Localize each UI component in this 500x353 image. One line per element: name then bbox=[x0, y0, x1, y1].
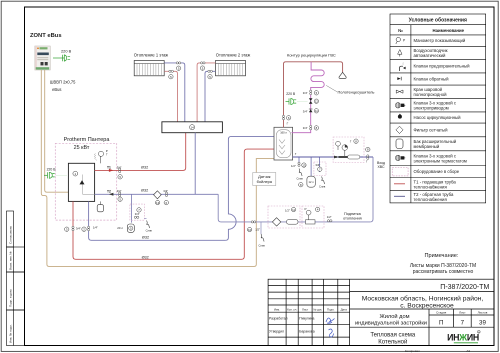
valve in drain assembly bbox=[134, 216, 136, 218]
gauge in pump box bbox=[336, 141, 341, 146]
valve on red riser bbox=[72, 226, 74, 228]
svg-text:Подп.: Подп. bbox=[327, 308, 335, 312]
safety group P gauge bbox=[94, 151, 103, 163]
legend symbol Т2 труба bbox=[394, 195, 405, 197]
svg-text:рассматривать совместно: рассматривать совместно bbox=[413, 269, 474, 275]
svg-text:Отопление 1 этаж: Отопление 1 этаж bbox=[134, 53, 169, 58]
svg-text:электроприводом: электроприводом bbox=[414, 106, 449, 111]
radiator 2 bbox=[216, 61, 246, 76]
svg-text:П: П bbox=[439, 320, 443, 327]
svg-text:220 В: 220 В bbox=[47, 168, 57, 172]
boiler unit U1 bbox=[68, 163, 94, 201]
P gauge on make-up bbox=[306, 210, 311, 219]
svg-text:7: 7 bbox=[461, 320, 465, 327]
svg-text:11: 11 bbox=[315, 109, 318, 113]
220V supply recirc pump bbox=[286, 92, 308, 105]
svg-text:Лист: Лист bbox=[459, 311, 466, 315]
svg-text:1/2": 1/2" bbox=[327, 215, 332, 219]
circle 15 bbox=[176, 66, 180, 70]
circle 16 bbox=[200, 66, 204, 70]
make-up pump box bbox=[302, 206, 324, 228]
svg-text:1/2": 1/2" bbox=[291, 164, 296, 168]
recirc pump assembly box bbox=[333, 137, 364, 163]
svg-text:№ док.: № док. bbox=[313, 308, 322, 312]
svg-text:№: № bbox=[398, 28, 403, 33]
valve on blue riser bbox=[88, 226, 90, 228]
left margin attribute boxes bbox=[7, 211, 25, 346]
cold water riser bbox=[370, 157, 373, 222]
stage columns bbox=[428, 309, 430, 346]
expansion tank branch 12 l bbox=[310, 157, 312, 176]
svg-text:Дата: Дата bbox=[341, 308, 348, 312]
DHW recirculation loop top bbox=[284, 62, 343, 128]
svg-text:Полотенцесушитель: Полотенцесушитель bbox=[338, 90, 375, 95]
circle 11 bbox=[291, 207, 295, 211]
svg-text:Р: Р bbox=[305, 207, 307, 211]
svg-text:3/4": 3/4" bbox=[303, 109, 308, 113]
drain branch from T2 bbox=[131, 194, 133, 222]
svg-text:Слив: Слив bbox=[297, 177, 304, 181]
legend symbol кран шаровой bbox=[396, 90, 403, 93]
drain branch on make-up bbox=[260, 222, 262, 234]
svg-text:Наименование: Наименование bbox=[433, 28, 465, 33]
3-way valve with actuator bbox=[309, 98, 313, 101]
wire sensor box to tank bbox=[256, 159, 276, 173]
signatures (blue) bbox=[326, 318, 335, 323]
svg-text:Разработал: Разработал bbox=[269, 317, 287, 321]
circle 14 bbox=[190, 125, 195, 130]
svg-text:Подп. и дата: Подп. и дата bbox=[9, 289, 13, 307]
svg-text:ХВС: ХВС bbox=[377, 165, 385, 169]
valve on make-up bbox=[251, 221, 253, 223]
svg-text:13: 13 bbox=[156, 201, 160, 205]
svg-text:Клапан предохранительный: Клапан предохранительный bbox=[414, 64, 471, 69]
svg-text:Московская область, Ногинский: Московская область, Ногинский район, bbox=[362, 294, 484, 302]
reducer on make-up bbox=[306, 220, 316, 224]
circle 5 serpentine bbox=[314, 91, 318, 95]
svg-text:Согласовано: Согласовано bbox=[9, 226, 13, 244]
svg-text:Слив: Слив bbox=[146, 229, 153, 233]
wire eBus to boiler bbox=[45, 70, 69, 192]
svg-text:Взам. инв. №: Взам. инв. № bbox=[9, 251, 13, 270]
svg-text:13: 13 bbox=[302, 163, 306, 167]
hydraulic separator manifold bbox=[162, 122, 223, 133]
pump symbol bbox=[342, 145, 348, 151]
DHW outlet pipe from tank bbox=[293, 156, 373, 158]
radiator 1 bbox=[134, 61, 164, 76]
radiator 1 supply pipe (red) bbox=[164, 71, 177, 122]
circle 11 serpentine bbox=[314, 109, 318, 113]
svg-text:Т1: Т1 bbox=[107, 165, 111, 169]
svg-text:39: 39 bbox=[479, 320, 486, 327]
svg-text:с. Воскресенское: с. Воскресенское bbox=[400, 302, 454, 309]
circle 5 on T2 valve bbox=[118, 197, 122, 201]
right part horizontals bbox=[350, 290, 494, 292]
blue riser with crossing bridge bbox=[226, 136, 274, 240]
svg-text:Ø32: Ø32 bbox=[141, 189, 148, 193]
drain branch on DHW outlet bbox=[298, 157, 300, 166]
flex connector bbox=[287, 220, 299, 225]
fittings on DHW line in box bbox=[335, 156, 337, 158]
svg-text:Ø32: Ø32 bbox=[142, 235, 149, 239]
svg-text:3/4": 3/4" bbox=[117, 165, 122, 169]
legend symbol клапан 3-х ходовой с электронным термостатом bbox=[395, 155, 405, 160]
valve on rad1 return bbox=[176, 62, 178, 64]
svg-text:3/4": 3/4" bbox=[76, 226, 81, 230]
filter F1 on T2 bbox=[154, 191, 162, 199]
svg-text:220 В: 220 В bbox=[61, 49, 72, 54]
svg-text:Слив: Слив bbox=[319, 185, 326, 189]
air separator triangle bbox=[339, 72, 346, 78]
boiler assembly dashed boundary bbox=[55, 143, 116, 220]
wire to boiler sensor bbox=[41, 70, 256, 266]
valve after pump box bbox=[367, 155, 369, 157]
svg-text:1/4": 1/4" bbox=[93, 226, 98, 230]
svg-text:Подпитка: Подпитка bbox=[344, 212, 362, 216]
svg-text:Ø32: Ø32 bbox=[142, 255, 149, 259]
svg-text:Отопление 2 этаж: Отопление 2 этаж bbox=[216, 53, 251, 58]
radiator 2 return pipe (dark) bbox=[205, 71, 216, 122]
dashed box drain assembly bbox=[130, 204, 144, 220]
make-up filter box bbox=[268, 206, 300, 228]
circle 8 bbox=[299, 183, 303, 187]
svg-text:12: 12 bbox=[315, 99, 319, 103]
left column verticals bbox=[285, 279, 287, 345]
legend symbol клапан обратный bbox=[397, 77, 400, 80]
svg-text:Пикулина: Пикулина bbox=[299, 317, 314, 321]
svg-text:14: 14 bbox=[190, 126, 194, 130]
svg-text:3/4": 3/4" bbox=[117, 189, 122, 193]
valve on rad2 return bbox=[208, 70, 210, 72]
svg-text:3/4": 3/4" bbox=[303, 126, 308, 130]
svg-text:электронным термостатом: электронным термостатом bbox=[414, 158, 467, 163]
circle 7 DHW bbox=[318, 167, 322, 171]
svg-text:бойлера: бойлера bbox=[257, 179, 273, 184]
legend symbol оборудование в сборе bbox=[392, 167, 408, 176]
circle 6 bbox=[164, 200, 168, 204]
svg-text:Кол. уч.: Кол. уч. bbox=[287, 308, 297, 312]
svg-text:10: 10 bbox=[248, 228, 252, 232]
circle 3 bbox=[65, 227, 69, 231]
svg-text:А3: А3 bbox=[466, 349, 470, 353]
svg-text:теплоснабжения: теплоснабжения bbox=[414, 184, 448, 189]
legend symbol клапан предохранительный bbox=[400, 66, 403, 71]
svg-text:20 л: 20 л bbox=[117, 226, 123, 230]
safety valve box on DHW bbox=[314, 162, 326, 176]
svg-text:Котельной: Котельной bbox=[378, 339, 407, 346]
svg-text:25 кВт: 25 кВт bbox=[74, 145, 90, 151]
circle 8 serpentine bbox=[314, 126, 318, 130]
svg-text:3/4": 3/4" bbox=[135, 212, 140, 216]
valve on T2 bbox=[119, 192, 121, 194]
drain symbol near boiler bbox=[147, 221, 150, 229]
logo ИНЖИН bbox=[447, 330, 480, 342]
circle 5 on T1 valve bbox=[118, 175, 122, 179]
svg-text:Оборудование в сборе: Оборудование в сборе bbox=[414, 169, 460, 174]
DHW loading return pipe (blue) bbox=[89, 201, 226, 240]
svg-text:Слив: Слив bbox=[259, 244, 266, 248]
circle 15b bbox=[169, 75, 173, 79]
ZONT controller device bbox=[35, 46, 50, 70]
indirect water heater tank 160 l bbox=[274, 127, 293, 160]
svg-text:220 В: 220 В bbox=[286, 92, 296, 96]
condensate vessel under boiler bbox=[99, 201, 101, 204]
legend table Условные обозначения bbox=[390, 14, 486, 203]
legend symbol Т1 труба bbox=[394, 183, 405, 185]
svg-text:1/2": 1/2" bbox=[255, 228, 260, 232]
filter on make-up bbox=[272, 218, 280, 226]
circle 7 bbox=[137, 208, 141, 212]
pipe T1 supply boiler to manifold bbox=[95, 133, 186, 171]
circle 4 bbox=[315, 207, 319, 211]
svg-text:Стадия: Стадия bbox=[436, 311, 447, 315]
circle 2 bbox=[82, 227, 86, 231]
towel warmer pointer bbox=[326, 85, 337, 91]
svg-text:3/4": 3/4" bbox=[163, 189, 168, 193]
manifold return drop bbox=[194, 133, 196, 195]
svg-text:индивидуальной застройки: индивидуальной застройки bbox=[355, 320, 427, 327]
svg-text:Баранова: Баранова bbox=[299, 330, 314, 334]
valve on rad1 supply bbox=[169, 70, 171, 72]
legend symbol насос циркуляционный bbox=[398, 115, 402, 119]
svg-text:Р: Р bbox=[106, 149, 108, 153]
circle 12 bbox=[314, 99, 318, 103]
svg-text:Клапан обратный: Клапан обратный bbox=[414, 76, 450, 81]
burner symbol bbox=[80, 180, 85, 184]
svg-text:Protherm Пантера: Protherm Пантера bbox=[64, 137, 111, 143]
radiator 1 return pipe (dark) bbox=[164, 63, 185, 122]
radiator 2 supply pipe (red) bbox=[197, 63, 215, 122]
circle 8 after box bbox=[366, 147, 370, 151]
svg-text:Утвердил: Утвердил bbox=[269, 330, 284, 334]
svg-text:ИНЖИН: ИНЖИН bbox=[447, 333, 479, 343]
svg-text:Т2: Т2 bbox=[107, 189, 111, 193]
svg-text:3/4": 3/4" bbox=[303, 91, 308, 95]
svg-text:Контур рециркуляции ГВС: Контур рециркуляции ГВС bbox=[287, 53, 336, 58]
valve on rad2 supply bbox=[201, 62, 203, 64]
svg-text:Условные обозначения: Условные обозначения bbox=[409, 16, 467, 23]
left part horizontals bbox=[268, 284, 350, 286]
svg-text:Ø32: Ø32 bbox=[141, 166, 148, 170]
make-up line bbox=[221, 221, 370, 223]
svg-text:полнопроходной: полнопроходной bbox=[414, 92, 448, 97]
svg-text:12 л: 12 л bbox=[309, 180, 315, 184]
svg-text:1/2": 1/2" bbox=[285, 209, 290, 213]
220V supply of boiler bbox=[44, 168, 67, 179]
svg-text:еВus: еВus bbox=[52, 87, 61, 92]
boiler sensor label box bbox=[253, 173, 276, 186]
svg-text:11: 11 bbox=[292, 208, 295, 212]
legend symbol бак расширительный bbox=[396, 139, 403, 148]
legend symbol воздухоотводчик bbox=[398, 50, 402, 55]
circle 1 bbox=[73, 171, 78, 176]
legend symbol манометр bbox=[396, 37, 401, 44]
svg-text:3/4": 3/4" bbox=[315, 163, 320, 167]
DHW loading supply pipe (red) bbox=[73, 149, 277, 259]
circle 13 bbox=[155, 200, 159, 204]
220V supply of controller bbox=[53, 49, 72, 62]
valve on T1 bbox=[119, 168, 121, 170]
make-up tie into T2 bbox=[218, 194, 221, 222]
svg-text:Примечание:: Примечание: bbox=[425, 253, 459, 259]
svg-text:автоматический: автоматический bbox=[414, 53, 447, 58]
circle 13 DHW bbox=[302, 163, 306, 167]
svg-text:Инв. № подл.: Инв. № подл. bbox=[9, 324, 13, 343]
svg-text:Жилой дом: Жилой дом bbox=[379, 313, 409, 320]
svg-text:Копировал: Копировал bbox=[405, 349, 420, 353]
svg-text:Листы марки П-387/2020-ТМ: Листы марки П-387/2020-ТМ bbox=[410, 263, 476, 269]
valve on serpentine line bbox=[310, 90, 312, 92]
circle 10 bbox=[247, 227, 251, 231]
svg-text:Листов: Листов bbox=[478, 311, 488, 315]
valve after filter bbox=[165, 192, 167, 194]
circle 16b bbox=[208, 75, 212, 79]
svg-text:Тепловая схема: Тепловая схема bbox=[370, 333, 416, 339]
valve after boxes bbox=[327, 220, 329, 222]
svg-text:Изм.: Изм. bbox=[274, 308, 280, 312]
svg-text:П-387/2020-ТМ: П-387/2020-ТМ bbox=[440, 284, 489, 291]
circle 6 tank top bbox=[286, 116, 290, 120]
valve lower serpentine bbox=[310, 125, 312, 127]
svg-text:теплоснабжения: теплоснабжения bbox=[414, 197, 448, 202]
svg-text:ШВВП 2х0,75: ШВВП 2х0,75 bbox=[50, 79, 76, 84]
svg-text:мембранный: мембранный bbox=[414, 144, 440, 149]
svg-text:ZONT eBus: ZONT eBus bbox=[30, 33, 62, 39]
svg-text:Лист: Лист bbox=[302, 308, 309, 312]
svg-text:Фильтр сетчатый: Фильтр сетчатый bbox=[414, 127, 449, 132]
svg-text:Манометр показывающий: Манометр показывающий bbox=[414, 38, 466, 43]
legend symbol фильтр сетчатый bbox=[396, 126, 403, 133]
notes bbox=[410, 253, 476, 275]
check valve on serpentine bbox=[309, 109, 313, 112]
towel warmer serpentine bbox=[292, 62, 325, 133]
svg-text:отопления: отопления bbox=[343, 216, 362, 220]
pipe T2 return manifold to boiler bbox=[95, 193, 219, 195]
valve on tank top line bbox=[282, 115, 284, 117]
svg-text:160 л: 160 л bbox=[280, 131, 287, 135]
legend symbol клапан 3-х ходовой с электроприводом bbox=[395, 103, 405, 108]
title block bbox=[268, 279, 494, 345]
svg-text:Насос циркуляционный: Насос циркуляционный bbox=[414, 115, 462, 120]
